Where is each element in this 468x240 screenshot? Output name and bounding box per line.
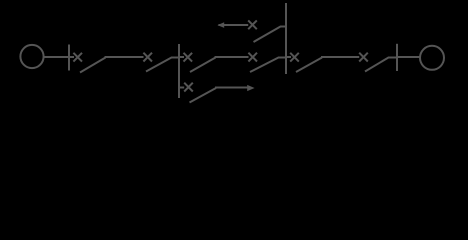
wire stub B1 to contact X3	[179, 56, 184, 58]
switch blade S1	[80, 58, 106, 73]
contact X4	[248, 53, 257, 62]
wire from G1 to bar T1	[44, 56, 69, 58]
feeder arrow A2 (bottom, pointing right)	[247, 85, 254, 91]
switch blade S6	[365, 58, 397, 72]
wire stub B2 to contact X5	[286, 56, 291, 58]
wire S8 to arrow A2	[215, 87, 249, 89]
tap bus B1 (vertical)	[178, 44, 180, 98]
wire stub B1 to contact X8 (bottom branch)	[179, 87, 184, 89]
terminal circle G2 (right source)	[420, 46, 444, 70]
wire T2 to circle G2	[398, 56, 421, 58]
contact X1	[73, 53, 82, 62]
wire stub T1 to contact X1	[70, 56, 74, 58]
switch blade S4	[250, 58, 286, 73]
contact X5	[290, 53, 299, 62]
switch blade S3	[190, 58, 216, 73]
wire S5 to contact X6	[321, 56, 359, 58]
switch blade S5	[296, 58, 322, 73]
contact X2	[143, 53, 152, 62]
contact X6	[359, 53, 368, 62]
terminal circle G1 (left source)	[20, 45, 43, 68]
contact X7 (top branch)	[248, 20, 257, 29]
switch blade S8 (bottom branch)	[190, 88, 217, 103]
terminal bar T2	[396, 44, 398, 71]
contact X8 (bottom branch)	[184, 83, 193, 92]
wire arrow A1 to contact X7	[219, 24, 249, 26]
terminal bar T1	[68, 45, 70, 71]
contact X3	[184, 53, 193, 62]
switch blade S7 (top branch)	[254, 27, 287, 43]
wire S1 to contact X2	[105, 56, 144, 58]
switch blade S2	[146, 58, 179, 72]
tap bus B2 (vertical)	[285, 3, 287, 74]
wire S3 to contact X4	[215, 56, 249, 58]
feeder arrow A1 (top, pointing left)	[217, 22, 224, 28]
